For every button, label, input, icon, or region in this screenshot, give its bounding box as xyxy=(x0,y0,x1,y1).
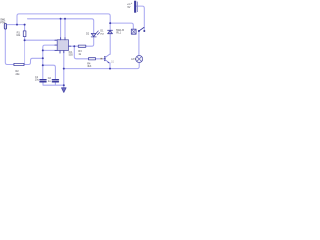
node line3-R1 junction xyxy=(24,24,26,26)
node R1 bottom junction xyxy=(24,39,26,41)
wire line3 switch to R1 xyxy=(6,25,24,31)
svg-text:LP1: LP1 xyxy=(131,57,136,61)
wire transistor emitter to rail xyxy=(109,63,111,69)
capacitor C2 xyxy=(52,80,58,82)
node rail0 left junction xyxy=(63,68,65,70)
ground xyxy=(62,88,67,93)
svg-text:RL1: RL1 xyxy=(116,32,121,35)
wire IC top pin B xyxy=(64,19,66,40)
svg-text:PTM: PTM xyxy=(0,21,5,24)
svg-text:+: + xyxy=(131,2,133,5)
resistor R1 xyxy=(23,31,26,37)
node timing-24k junction xyxy=(42,57,44,59)
label Q1 base tan mark xyxy=(101,58,103,59)
diode D1 xyxy=(108,30,113,33)
resistor R2 xyxy=(78,45,86,47)
wire diode bottom to transistor collector xyxy=(109,34,111,55)
transistor Q1 xyxy=(105,54,110,63)
node rail2 pinA junction xyxy=(60,18,62,20)
svg-text:1u: 1u xyxy=(48,80,51,83)
lamp LP1 xyxy=(136,56,143,63)
capacitor C1 xyxy=(40,80,46,82)
switch SW1 pill xyxy=(4,24,6,30)
svg-text:24k: 24k xyxy=(16,73,21,76)
wire relay branch xyxy=(110,23,133,29)
node output junction xyxy=(73,45,75,47)
node emitter-rail junction xyxy=(109,68,111,70)
wire R4 to transistor base xyxy=(96,58,105,60)
svg-text:10u: 10u xyxy=(35,79,40,82)
wire IC left pin bottom xyxy=(43,49,57,51)
svg-text:D1: D1 xyxy=(100,30,104,33)
svg-text:3k3: 3k3 xyxy=(87,65,92,68)
wire IC gnd pin down to cap line xyxy=(63,51,65,86)
relay coil RL1 xyxy=(131,29,136,34)
wire battery to relay switch xyxy=(136,6,144,31)
node rail2 pinB junction xyxy=(64,18,66,20)
relay switch contact xyxy=(138,27,145,32)
wire LED to R2 xyxy=(86,37,94,46)
node timing-C2 junction xyxy=(42,64,44,66)
IC pin ticks xyxy=(55,38,71,53)
wire branch to C2 xyxy=(43,65,56,79)
wire IC top pin A xyxy=(60,19,62,40)
battery B1 xyxy=(134,1,136,13)
node cap-gnd junction xyxy=(63,84,65,86)
svg-text:1k: 1k xyxy=(78,53,81,56)
wire timing node vertical xyxy=(43,45,57,79)
node timing-pin junction xyxy=(42,49,44,51)
LED D2 xyxy=(91,33,96,37)
wire switch down through 24k xyxy=(5,29,14,64)
resistor 24k xyxy=(14,63,24,65)
wire switch to lamp xyxy=(138,31,140,55)
wire IC output to R2 xyxy=(69,45,79,47)
wire top rail1 xyxy=(17,14,110,30)
wire 24k right to timing node xyxy=(24,58,43,64)
op-amp U1 IC body xyxy=(57,40,68,51)
svg-text:Q1: Q1 xyxy=(111,61,115,64)
wire lamp to 0V rail xyxy=(64,63,139,69)
wire R1 bottom to IC pin xyxy=(25,37,58,41)
svg-text:10k: 10k xyxy=(16,34,21,37)
wire output branch down xyxy=(74,46,88,59)
svg-text:D2: D2 xyxy=(86,33,90,36)
svg-text:1N4: 1N4 xyxy=(100,33,105,35)
node rail1-line3 junction xyxy=(16,24,18,26)
node diode-relay junction xyxy=(109,22,111,24)
wire rail2 xyxy=(28,19,94,33)
wire IC ctrl pin stub xyxy=(59,51,61,54)
wire R1 node down to 24k resistor wire xyxy=(24,40,26,64)
wire cap bottoms to ground xyxy=(43,82,64,88)
resistor R4 xyxy=(89,58,96,60)
svg-text:9V: 9V xyxy=(127,6,130,9)
svg-text:555: 555 xyxy=(69,54,74,57)
